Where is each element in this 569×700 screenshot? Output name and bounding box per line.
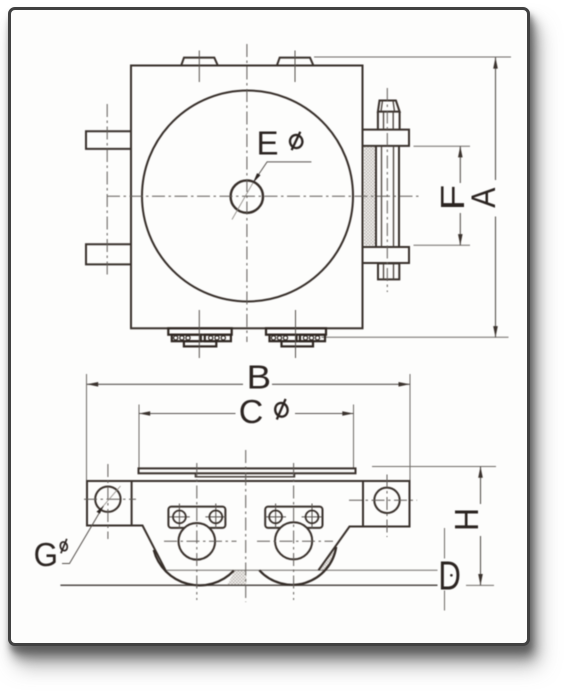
svg-text:A: A	[464, 187, 502, 208]
svg-text:D: D	[438, 552, 461, 598]
svg-text:H: H	[449, 508, 486, 531]
svg-text:E: E	[256, 125, 278, 162]
svg-text:G: G	[34, 536, 58, 573]
svg-text:B: B	[247, 359, 271, 396]
svg-text:C: C	[239, 394, 264, 430]
